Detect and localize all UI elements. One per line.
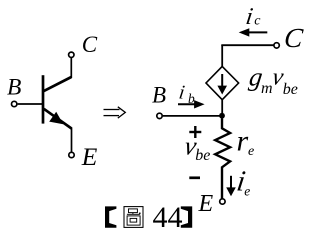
svg-text:e: e [248, 144, 254, 159]
svg-text:be: be [283, 81, 298, 98]
svg-text:r: r [237, 125, 249, 158]
svg-text:C: C [82, 32, 98, 57]
svg-text:be: be [195, 147, 210, 164]
svg-text:B: B [7, 75, 21, 101]
svg-text:44: 44 [153, 201, 183, 233]
svg-text:e: e [244, 183, 250, 198]
svg-text:E: E [81, 142, 98, 171]
svg-text:B: B [152, 83, 166, 108]
svg-text:c: c [254, 14, 261, 29]
svg-text:E: E [198, 191, 214, 217]
